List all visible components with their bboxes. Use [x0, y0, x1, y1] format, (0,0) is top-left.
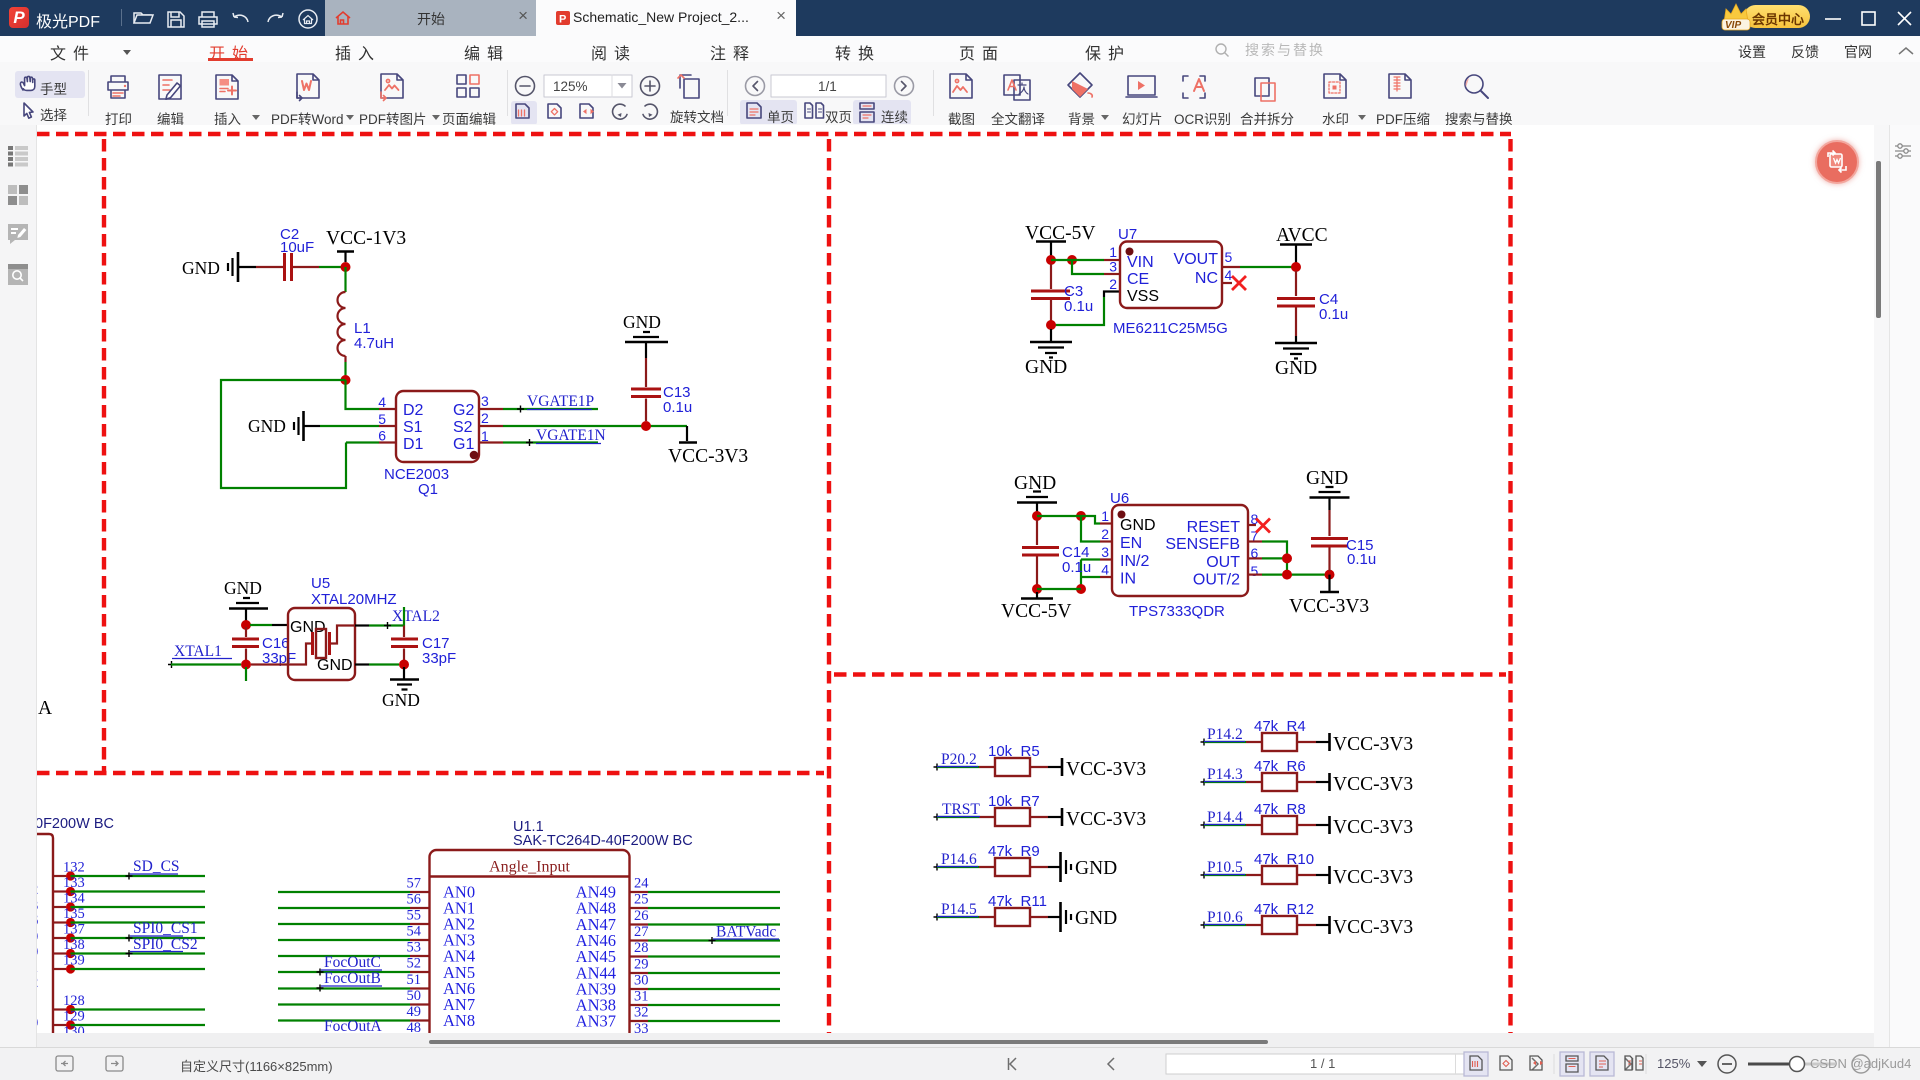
- ground GND (below C3): [1025, 329, 1072, 378]
- power flag VCC-1V3: [326, 228, 406, 262]
- node junction pin6: [1282, 553, 1292, 563]
- svg-text:26: 26: [634, 908, 649, 924]
- pin 129 wire: [53, 1009, 205, 1030]
- svg-text:2: 2: [1109, 276, 1117, 292]
- svg-text:10uF: 10uF: [280, 239, 314, 256]
- svg-text:32: 32: [634, 1005, 649, 1021]
- zoom minus circle: [1718, 1055, 1736, 1073]
- svg-text:55: 55: [407, 908, 422, 924]
- save: [168, 12, 184, 27]
- node junction VCC-5V: [1046, 255, 1056, 265]
- separators: [88, 70, 89, 116]
- ground GND (above C15): [1306, 468, 1350, 510]
- svg-text:VCC-3V3: VCC-3V3: [1066, 809, 1146, 830]
- svg-text:130: 130: [63, 1024, 85, 1033]
- node junction at VCC-1V3: [341, 262, 351, 272]
- resistor R6 with net P14.3: [1201, 758, 1414, 795]
- svg-text:10k R7: 10k R7: [988, 793, 1040, 810]
- pin name AN38: [576, 996, 616, 1015]
- svg-text:VCC-3V3: VCC-3V3: [1333, 917, 1413, 938]
- svg-text:53: 53: [407, 940, 422, 956]
- wire S1: [320, 425, 379, 427]
- svg-text:P20.2: P20.2: [941, 751, 977, 768]
- pin 130 (clipped): [53, 1024, 85, 1041]
- svg-text:BATVadc: BATVadc: [716, 924, 776, 941]
- svg-text:FocOutC: FocOutC: [324, 954, 381, 971]
- capacitor C4: [1277, 271, 1348, 336]
- svg-text:138: 138: [63, 937, 85, 953]
- pin 25 wire: [630, 892, 781, 909]
- pin 134 wire: [53, 891, 205, 912]
- ground GND (at S1 of Q1): [248, 411, 320, 441]
- svg-text:P: P: [559, 14, 566, 26]
- pin name AN6: [443, 979, 475, 998]
- svg-text:49: 49: [407, 1004, 422, 1020]
- svg-text:5: 5: [1225, 249, 1233, 265]
- svg-text:27: 27: [634, 924, 649, 940]
- resistor R11 with net P14.5: [934, 893, 1118, 932]
- pin name AN49: [576, 883, 616, 902]
- IC U1.2 (cut off at left) 0F200W BC: [35, 816, 114, 1033]
- OCR识别: [1183, 76, 1205, 98]
- svg-text:FocOutB: FocOutB: [324, 970, 381, 987]
- pin 128 wire: [53, 993, 205, 1014]
- svg-text:GND: GND: [1025, 357, 1067, 378]
- svg-text:3: 3: [37, 898, 38, 914]
- node junction C16 top: [241, 620, 251, 630]
- wire S2 to VCC-3V3: [503, 425, 687, 427]
- rotate cw: [643, 104, 657, 119]
- svg-text:4.7uH: 4.7uH: [354, 335, 394, 352]
- svg-text:33: 33: [634, 1021, 649, 1033]
- regulator U7 ME6211C25M5G: [1109, 226, 1232, 337]
- 合并拆分: [1255, 78, 1269, 96]
- svg-text:OUT: OUT: [1206, 554, 1240, 571]
- ground GND (above C13): [623, 312, 668, 358]
- capacitor C17: [391, 626, 456, 668]
- svg-text:133: 133: [63, 875, 85, 891]
- svg-text:XTAL20MHZ: XTAL20MHZ: [311, 591, 397, 608]
- rotate-doc pages icon: [684, 79, 699, 98]
- pin name AN5: [443, 963, 475, 982]
- net label SPI0_CS1: [126, 920, 198, 942]
- pin 49 wire: [278, 1004, 430, 1021]
- svg-text:10k R5: 10k R5: [988, 743, 1040, 760]
- pin 27 wire: [630, 924, 781, 941]
- svg-text:0: 0: [37, 1015, 38, 1031]
- svg-text:2: 2: [481, 410, 489, 426]
- wire SENSEFB pin7 feedback: [1248, 542, 1287, 575]
- net label SD_CS: [126, 858, 180, 880]
- svg-text:SENSEFB: SENSEFB: [1165, 536, 1240, 553]
- hand tool bg: [15, 71, 85, 98]
- ground GND (at C2): [182, 252, 256, 282]
- svg-text:VCC-3V3: VCC-3V3: [668, 446, 748, 467]
- page nav: [746, 77, 765, 96]
- pin 50 wire: [278, 988, 430, 1005]
- svg-text:6: 6: [378, 428, 386, 444]
- wire U5 bottom to C17: [355, 663, 399, 665]
- svg-text:ME6211C25M5G: ME6211C25M5G: [1113, 320, 1228, 337]
- no-connect X on pin 8: [1248, 519, 1270, 533]
- node junction C14 top: [1032, 511, 1042, 521]
- wire C14 bottom to pin4 branch: [1037, 588, 1081, 590]
- svg-text:31: 31: [634, 989, 649, 1005]
- pin 57 wire: [278, 876, 430, 893]
- svg-text:GND: GND: [182, 258, 220, 278]
- svg-text:VCC-1V3: VCC-1V3: [326, 228, 406, 249]
- pin name AN3: [443, 931, 475, 950]
- wire L1 to node: [344, 362, 346, 380]
- resistor R10 with net P10.5: [1201, 851, 1414, 888]
- svg-text:GND: GND: [1275, 358, 1317, 379]
- node junction C15 bottom: [1325, 570, 1335, 580]
- page edit icon: [457, 75, 466, 84]
- svg-text:3: 3: [1109, 259, 1117, 275]
- svg-text:4: 4: [378, 394, 386, 410]
- wire OUT/2 pin5 to VCC-3V3: [1248, 573, 1330, 575]
- svg-text:GND: GND: [1306, 468, 1348, 489]
- pin name AN8: [443, 1011, 475, 1030]
- svg-text:SAK-TC264D-40F200W BC: SAK-TC264D-40F200W BC: [513, 833, 693, 849]
- 截图: [950, 74, 972, 98]
- pin 55 wire: [278, 908, 430, 925]
- 背景: [1068, 73, 1092, 97]
- svg-text:IN: IN: [1120, 571, 1136, 588]
- svg-text:VCC-5V: VCC-5V: [1001, 601, 1071, 622]
- home circle: [299, 10, 317, 28]
- capacitor C3: [1031, 264, 1093, 321]
- edit icon: [159, 75, 181, 99]
- wire branch to CE pin3: [1072, 260, 1120, 274]
- redo: [268, 13, 283, 22]
- svg-text:2: 2: [37, 882, 38, 898]
- svg-text:3: 3: [481, 393, 489, 409]
- net label FocOutB: [317, 970, 383, 992]
- svg-text:50: 50: [407, 988, 422, 1004]
- floating convert button glyph: [1815, 140, 1859, 184]
- net label VGATE1N: [503, 427, 606, 446]
- pdf2word icon: [297, 74, 319, 98]
- svg-text:P14.2: P14.2: [1207, 726, 1243, 743]
- pin name AN0: [443, 883, 475, 902]
- wire VSS pin2 to GND net: [1051, 292, 1120, 326]
- svg-text:G1: G1: [453, 436, 474, 453]
- capacitor C13: [631, 358, 692, 421]
- svg-text:0.1u: 0.1u: [1064, 298, 1093, 315]
- net label FocOutC: [317, 954, 383, 976]
- svg-text:D1: D1: [403, 436, 424, 453]
- svg-text:GND: GND: [248, 416, 286, 436]
- power flag AVCC: [1276, 225, 1328, 263]
- net label FocOutA (clipped): [324, 1018, 383, 1035]
- svg-text:57: 57: [407, 876, 422, 892]
- svg-text:132: 132: [63, 860, 85, 876]
- wire branch to EN pin2: [1081, 516, 1112, 542]
- wire pin 6: [346, 441, 379, 443]
- node junction C3 bottom: [1046, 320, 1056, 330]
- ground GND (below C4): [1275, 336, 1317, 379]
- svg-text:GND: GND: [1075, 858, 1117, 879]
- svg-text:1: 1: [481, 428, 489, 444]
- svg-text:9: 9: [37, 929, 38, 945]
- svg-text:VCC-3V3: VCC-3V3: [1333, 734, 1413, 755]
- svg-text:Q1: Q1: [418, 481, 438, 498]
- svg-text:OUT/2: OUT/2: [1193, 572, 1240, 589]
- resistor R4 with net P14.2: [1201, 718, 1414, 755]
- pin 31 wire: [630, 989, 781, 1006]
- svg-text:0.1u: 0.1u: [1062, 559, 1091, 576]
- svg-text:GND: GND: [382, 690, 420, 710]
- 双页: [805, 103, 824, 118]
- svg-text:NC: NC: [1195, 270, 1218, 287]
- svg-text:4: 4: [1101, 562, 1109, 578]
- svg-text:U5: U5: [311, 575, 330, 592]
- crystal unit U5 XTAL20MHZ: [251, 575, 397, 680]
- net label VGATE1P: [503, 393, 598, 413]
- svg-text:128: 128: [63, 993, 85, 1009]
- pin 32 wire: [630, 1005, 781, 1022]
- hand icon: [20, 76, 34, 90]
- pin 54 wire: [278, 924, 430, 941]
- fit page: [548, 104, 561, 118]
- dashed region frame: center vertical divider: [827, 139, 831, 1033]
- pin name AN48: [576, 899, 616, 918]
- pin name AN37: [576, 1012, 616, 1031]
- pin name AN7: [443, 995, 475, 1014]
- svg-text:XTAL1: XTAL1: [174, 643, 222, 660]
- print: [199, 12, 217, 27]
- svg-text:D2: D2: [403, 402, 424, 419]
- svg-text:AVCC: AVCC: [1276, 225, 1328, 246]
- ground GND (above C16): [224, 578, 268, 622]
- zoom input: [544, 75, 632, 97]
- fit width: [580, 104, 593, 118]
- labels: [40, 78, 67, 98]
- pin 137 wire: [53, 922, 205, 943]
- svg-text:28: 28: [634, 940, 649, 956]
- zoom-out circle: [516, 77, 535, 96]
- svg-text:VCC-3V3: VCC-3V3: [1333, 867, 1413, 888]
- svg-text:0.1u: 0.1u: [1319, 306, 1348, 323]
- two page-turn icons: [56, 1056, 123, 1071]
- wire node to L1: [344, 267, 346, 292]
- power flag VCC-5V (below C14): [1001, 592, 1071, 622]
- svg-text:NCE2003: NCE2003: [384, 466, 449, 483]
- svg-text:5: 5: [1251, 563, 1259, 579]
- IC U1.1 SAK-TC264D-40F200W BC: [430, 819, 693, 1040]
- transistor Q1 NCE2003: [378, 391, 503, 498]
- svg-text:VCC-3V3: VCC-3V3: [1333, 817, 1413, 838]
- dashed region frame: bottom-left horizontal divider: [37, 771, 824, 775]
- svg-text:TRST: TRST: [942, 801, 980, 818]
- svg-text:AN37: AN37: [576, 1012, 616, 1031]
- pin 139 wire: [53, 953, 205, 974]
- page nav: [1009, 1058, 1017, 1070]
- node junction pin1 branch: [1067, 255, 1077, 265]
- pin name AN47: [576, 915, 616, 934]
- PDF压缩: [1389, 74, 1411, 98]
- svg-text:0F200W BC: 0F200W BC: [37, 816, 114, 832]
- capacitor C16: [232, 627, 296, 667]
- svg-text:51: 51: [407, 972, 422, 988]
- svg-text:VCC-3V3: VCC-3V3: [1066, 759, 1146, 780]
- capacitor C15: [1311, 510, 1376, 571]
- svg-text:RESET: RESET: [1187, 519, 1241, 536]
- svg-text:GND: GND: [623, 312, 661, 332]
- pin 56 wire: [278, 892, 430, 909]
- resistor R5 with net P20.2: [934, 743, 1147, 780]
- left-edge clipped pin numbers: [31, 882, 38, 1047]
- wire branch IN/2 pin3 and IN pin4: [1081, 560, 1112, 590]
- power flag VCC-3V3 (below C15): [1289, 575, 1369, 617]
- node junction C16 bottom: [241, 660, 251, 670]
- svg-text:VIN: VIN: [1127, 254, 1154, 271]
- wire to U5 GND pin (top): [250, 624, 288, 626]
- svg-text:25: 25: [634, 892, 649, 908]
- svg-text:0.1u: 0.1u: [663, 399, 692, 416]
- svg-text:3: 3: [1101, 544, 1109, 560]
- svg-text:129: 129: [63, 1009, 85, 1025]
- node junction below L1: [341, 375, 351, 385]
- svg-text:137: 137: [63, 922, 85, 938]
- ground GND (below C17): [382, 667, 420, 710]
- dashed region frame: middle-right horizontal divider: [834, 672, 1506, 676]
- wire node to pin 4: [346, 380, 380, 409]
- wire OUT pin6: [1248, 557, 1287, 559]
- net label XTAL2: [392, 607, 440, 626]
- svg-text:47k R8: 47k R8: [1254, 801, 1306, 818]
- svg-text:VCC-3V3: VCC-3V3: [1289, 596, 1369, 617]
- svg-text:1: 1: [1101, 508, 1109, 524]
- 水印: [1324, 74, 1346, 98]
- svg-text:VIP: VIP: [1725, 20, 1741, 31]
- svg-text:52: 52: [407, 956, 422, 972]
- dropdown carets: [252, 115, 260, 120]
- svg-text:5: 5: [378, 411, 386, 427]
- svg-text:SPI0_CS2: SPI0_CS2: [133, 936, 198, 953]
- svg-text:Angle_Input: Angle_Input: [489, 859, 570, 876]
- pin 29 wire: [630, 957, 781, 974]
- svg-text:EN: EN: [1120, 535, 1142, 552]
- pin 51 wire: [278, 972, 430, 989]
- svg-text:VCC-3V3: VCC-3V3: [1333, 774, 1413, 795]
- insert icon: [216, 75, 238, 99]
- svg-text:47k R12: 47k R12: [1254, 901, 1314, 918]
- svg-text:47k R9: 47k R9: [988, 843, 1040, 860]
- pin name AN1: [443, 899, 475, 918]
- resistor R8 with net P14.4: [1201, 801, 1414, 838]
- power flag VCC-5V (U7): [1025, 223, 1095, 256]
- pin name AN44: [576, 964, 616, 983]
- svg-text:P10.6: P10.6: [1207, 909, 1243, 926]
- pin name AN4: [443, 947, 475, 966]
- svg-text:XTAL2: XTAL2: [392, 608, 440, 625]
- svg-text:GND: GND: [1075, 908, 1117, 929]
- svg-text:SPI0_CS1: SPI0_CS1: [133, 920, 198, 937]
- inductor L1: [338, 292, 395, 362]
- 幻灯片: [1128, 76, 1155, 95]
- pin 48 wire: [278, 1020, 430, 1037]
- pin 132 wire: [53, 860, 205, 881]
- pdf2img icon: [381, 74, 403, 98]
- folder open: [134, 13, 151, 23]
- node junction at C13: [641, 421, 651, 431]
- resistor R9 with net P14.6: [934, 843, 1118, 882]
- no-connect X on pin 4: [1222, 276, 1246, 290]
- 搜索与替换 big: [1465, 75, 1483, 93]
- power flag VCC-3V3 (below S2 wire): [668, 426, 748, 467]
- dashed region frame: right vertical border: [1508, 139, 1512, 1033]
- pin 133 wire: [53, 875, 205, 896]
- 单页: [740, 100, 797, 125]
- svg-text:G2: G2: [453, 402, 474, 419]
- net label BATVadc: [709, 924, 780, 945]
- svg-text:GND: GND: [1120, 517, 1156, 534]
- svg-text:48: 48: [407, 1020, 422, 1033]
- zoom-in circle: [641, 77, 660, 96]
- svg-text:VGATE1P: VGATE1P: [527, 393, 594, 410]
- wire VOUT pin5 to AVCC: [1222, 266, 1296, 268]
- select arrow: [24, 103, 33, 118]
- node junction C17 bottom: [399, 660, 409, 670]
- svg-text:47k R11: 47k R11: [988, 893, 1047, 910]
- svg-text:4: 4: [1225, 267, 1233, 283]
- 全文翻译: [1004, 75, 1020, 95]
- caret for 125%: [1697, 1061, 1707, 1067]
- svg-text:56: 56: [407, 892, 422, 908]
- resistor R12 with net P10.6: [1201, 901, 1414, 938]
- svg-text:VOUT: VOUT: [1174, 251, 1219, 268]
- node junction AVCC: [1291, 262, 1301, 272]
- wire GND net to pin1: [1037, 516, 1112, 524]
- wire VCC-5V to VIN pin1: [1051, 259, 1120, 261]
- svg-text:SD_CS: SD_CS: [133, 858, 180, 875]
- print icon: [108, 76, 128, 98]
- svg-text:GND: GND: [290, 619, 326, 636]
- pin name AN39: [576, 980, 616, 999]
- rotate ccw: [613, 104, 627, 119]
- pin 135 wire: [53, 906, 205, 927]
- pin 53 wire: [278, 940, 430, 957]
- svg-text:134: 134: [63, 891, 86, 907]
- svg-text:6: 6: [37, 913, 38, 929]
- svg-text:A: A: [38, 698, 52, 719]
- node junction pin4 branch bottom: [1076, 584, 1086, 594]
- svg-text:33pF: 33pF: [422, 650, 456, 667]
- node junction pin5: [1282, 570, 1292, 580]
- view icons: [1464, 1052, 1643, 1076]
- pin 24 wire: [630, 876, 781, 893]
- regulator U6 TPS7333QDR: [1101, 490, 1258, 620]
- pin 52 wire: [278, 956, 430, 973]
- row2: 1:1: [511, 101, 537, 125]
- svg-text:135: 135: [63, 906, 85, 922]
- node junction C14 bottom: [1032, 584, 1042, 594]
- dashed region frame: left vertical divider: [102, 139, 106, 773]
- pin name AN45: [576, 947, 616, 966]
- right strip tune icon: [1893, 141, 1917, 161]
- wire stub below C16: [245, 667, 247, 681]
- svg-text:CE: CE: [1127, 271, 1149, 288]
- node junction U6 pin branch top: [1076, 511, 1086, 521]
- svg-text:GND: GND: [317, 657, 353, 674]
- svg-text:VGATE1N: VGATE1N: [536, 427, 606, 444]
- svg-text:P14.3: P14.3: [1207, 766, 1243, 783]
- svg-text:2: 2: [37, 975, 38, 991]
- pin 33 wire: [630, 1021, 781, 1038]
- pin 28 wire: [630, 940, 781, 957]
